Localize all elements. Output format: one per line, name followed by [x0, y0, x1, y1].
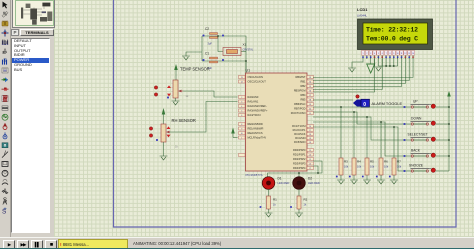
ground R4	[350, 180, 358, 184]
svg-text:10k: 10k	[357, 165, 362, 169]
svg-text:DOWN: DOWN	[411, 117, 422, 121]
ground R5	[363, 180, 371, 184]
svg-text:4: 4	[374, 53, 375, 55]
svg-text:23: 23	[309, 138, 311, 140]
junction LED D2	[298, 172, 300, 174]
svg-text:RD2/PSP2: RD2/PSP2	[293, 157, 306, 161]
junction rail UP	[448, 106, 450, 108]
svg-text:D2: D2	[308, 177, 312, 181]
svg-text:C2: C2	[205, 27, 209, 31]
wire LCD RS to MCU	[313, 67, 375, 92]
wire crystal right lead	[241, 51, 246, 53]
svg-text:1k: 1k	[273, 203, 276, 207]
svg-text:RC0/T1OSO: RC0/T1OSO	[291, 111, 306, 115]
svg-text:RE1/AN6/WR: RE1/AN6/WR	[248, 127, 264, 131]
logic toggle ALARM TOGGLE	[356, 95, 359, 98]
svg-text:X1: X1	[243, 43, 247, 47]
junction osc bottom	[245, 60, 247, 62]
U1 left pin number boxes	[239, 76, 246, 157]
svg-text:21: 21	[309, 159, 311, 161]
resistor R4	[349, 158, 362, 180]
power terminal TEMP sensor	[175, 70, 177, 80]
svg-text:OSC1/CLKIN: OSC1/CLKIN	[248, 75, 264, 79]
svg-text:6: 6	[241, 115, 242, 117]
button BACK	[403, 149, 449, 158]
wire MCU to SELECT button	[313, 117, 403, 140]
wire LCD D5 to MCU	[313, 59, 405, 84]
resistor R1	[260, 196, 278, 213]
svg-text:R7: R7	[397, 160, 401, 164]
capacitor C2	[210, 33, 218, 35]
svg-text:Time: 22:32:12: Time: 22:32:12	[366, 27, 418, 34]
svg-text:3: 3	[241, 102, 242, 104]
svg-text:RB2: RB2	[300, 84, 306, 88]
LCD LCD1 body	[358, 19, 433, 50]
svg-text:LM044L: LM044L	[357, 14, 368, 18]
svg-text:R1: R1	[273, 198, 277, 202]
resistor R3	[336, 158, 349, 180]
svg-text:RB5: RB5	[300, 98, 306, 102]
wire R4 to line	[353, 112, 355, 158]
pot TEMP wiper arrow	[178, 90, 182, 93]
svg-text:UP: UP	[413, 100, 418, 104]
junction rail DOWN	[448, 123, 450, 125]
wire RH pot bottom	[163, 142, 165, 156]
wire MCU to UP button	[313, 106, 403, 108]
svg-text:RA1/AN1: RA1/AN1	[248, 100, 259, 104]
power terminal button rail	[448, 97, 450, 100]
svg-text:RA2/AN2/VREF-: RA2/AN2/VREF-	[248, 104, 267, 108]
wire TEMP wiper to MCU RA0	[183, 91, 238, 97]
svg-text:R6: R6	[384, 160, 388, 164]
svg-text:RB1: RB1	[300, 80, 306, 84]
svg-text:RB7/PGD: RB7/PGD	[294, 107, 306, 111]
button SELECT/SET	[403, 133, 449, 142]
svg-text:10k: 10k	[397, 165, 402, 169]
wire MCU to SNOOZE button	[313, 127, 403, 171]
svg-text:10: 10	[241, 133, 243, 135]
junction R6	[380, 121, 382, 123]
svg-text:RH SENSOR: RH SENSOR	[172, 118, 196, 123]
ground RH sensor	[160, 156, 168, 160]
wire R5 to line	[366, 117, 368, 158]
svg-text:14: 14	[241, 82, 243, 84]
svg-text:10: 10	[397, 53, 399, 55]
wire LED D1 to R1	[268, 189, 270, 196]
svg-text:PIC16F877A: PIC16F877A	[246, 173, 263, 177]
svg-text:U1: U1	[246, 69, 251, 73]
ground R1	[265, 213, 273, 217]
svg-text:18: 18	[309, 134, 311, 136]
svg-text:7: 7	[386, 53, 387, 55]
crystal X1	[223, 48, 241, 56]
resistor R7	[389, 158, 402, 180]
wire VDD terminal to MCU	[233, 137, 238, 139]
svg-text:10k: 10k	[344, 165, 349, 169]
svg-text:4: 4	[241, 106, 242, 108]
potentiometer RV2 RH body	[161, 124, 166, 142]
svg-text:5: 5	[241, 111, 242, 113]
ground crystal	[182, 56, 190, 60]
wire RH wiper to MCU RA1	[170, 102, 238, 133]
svg-text:CRYSTAL: CRYSTAL	[243, 49, 254, 52]
svg-text:1k: 1k	[186, 94, 189, 98]
LCD screen	[363, 23, 428, 44]
svg-text:40: 40	[309, 109, 311, 111]
svg-text:RD3/PSP3: RD3/PSP3	[293, 162, 306, 166]
pot TEMP adjust buttons	[154, 86, 157, 89]
svg-text:RC3/SCK: RC3/SCK	[294, 132, 306, 136]
svg-text:RC1/T1OSI: RC1/T1OSI	[292, 124, 306, 128]
wire R7 to line	[393, 127, 395, 158]
svg-text:22: 22	[309, 164, 311, 166]
svg-text:1k: 1k	[304, 203, 307, 207]
LCD pin stubs	[363, 56, 413, 60]
svg-text:36: 36	[309, 91, 311, 93]
svg-text:3pF: 3pF	[208, 42, 213, 46]
LCD pin label boxes	[361, 51, 414, 56]
svg-text:9: 9	[241, 129, 242, 131]
ground terminal LCD VEE down arrow	[370, 59, 372, 64]
sheet border (schematic page outline)	[114, 0, 457, 227]
svg-text:13: 13	[408, 53, 410, 55]
svg-text:D1: D1	[278, 177, 282, 181]
svg-text:TEMP SENSOR: TEMP SENSOR	[180, 67, 210, 72]
U1 right pin number boxes	[307, 76, 314, 171]
svg-text:10k: 10k	[384, 165, 389, 169]
U1 pin name texts	[248, 75, 307, 170]
potentiometer RV1 TEMP body	[173, 80, 178, 98]
svg-text:RD1/PSP1: RD1/PSP1	[293, 153, 306, 157]
svg-text:2: 2	[241, 97, 242, 99]
svg-text:MCLR/Vpp/THV: MCLR/Vpp/THV	[248, 136, 267, 140]
wire R6 to line	[380, 122, 382, 158]
junction R3	[340, 106, 342, 108]
wire LED D2 to R2	[298, 189, 300, 196]
ground R7	[390, 180, 398, 184]
svg-text:R5: R5	[370, 160, 374, 164]
svg-text:1: 1	[241, 138, 242, 140]
svg-text:16: 16	[309, 126, 311, 128]
wire oscillator loop left vertical	[201, 36, 203, 61]
junction R5	[366, 116, 368, 118]
svg-text:RB0/INT: RB0/INT	[296, 75, 306, 79]
svg-text:LED-RED: LED-RED	[308, 181, 320, 185]
svg-text:RD4/PSP4: RD4/PSP4	[293, 166, 306, 170]
svg-text:27: 27	[309, 168, 311, 170]
svg-text:RA0/AN0: RA0/AN0	[248, 95, 259, 99]
svg-text:R2: R2	[304, 198, 308, 202]
svg-text:2: 2	[366, 53, 367, 55]
svg-text:37: 37	[309, 95, 311, 97]
svg-text:11: 11	[401, 53, 403, 55]
LCD pin state squares	[362, 56, 414, 58]
wire LCD D4 to MCU	[313, 59, 402, 87]
svg-text:1k: 1k	[175, 145, 178, 149]
svg-text:33: 33	[309, 77, 311, 79]
svg-text:RA3/AN3/VREF+: RA3/AN3/VREF+	[248, 109, 268, 113]
ground LCD RW	[374, 67, 382, 71]
wire LCD VSS to ground	[352, 59, 363, 68]
junction R4	[353, 111, 355, 113]
wire oscillator top rail to OSC1	[202, 36, 246, 77]
pot RH adjust buttons	[149, 127, 152, 130]
svg-text:39: 39	[309, 104, 311, 106]
LED D2 (off)	[293, 177, 320, 190]
resistor R6	[376, 158, 389, 180]
junction LED feed	[317, 172, 319, 174]
button UP	[403, 100, 449, 109]
svg-text:9: 9	[393, 53, 394, 55]
svg-text:RC4/SDI: RC4/SDI	[295, 136, 306, 140]
wire MCU to alarm toggle	[313, 99, 353, 101]
svg-text:1: 1	[363, 53, 364, 55]
wire R3 to line	[340, 107, 342, 158]
svg-text:RB6/PGC: RB6/PGC	[294, 102, 306, 106]
wire MCU to LED D1	[268, 161, 323, 177]
wire button power rail	[448, 99, 450, 171]
wire TEMP pot bottom	[175, 98, 177, 101]
svg-text:SNOOZE: SNOOZE	[409, 164, 424, 168]
svg-text:LED-RED: LED-RED	[278, 181, 290, 185]
svg-text:OSC2/CLKOUT: OSC2/CLKOUT	[248, 80, 267, 84]
svg-text:13: 13	[241, 77, 243, 79]
svg-text:8: 8	[241, 124, 242, 126]
svg-text:5: 5	[378, 53, 379, 55]
svg-text:3: 3	[370, 53, 371, 55]
svg-text:RC2/CCP1: RC2/CCP1	[293, 128, 306, 132]
junction dots LCD data tie	[385, 65, 387, 67]
capacitor C1	[210, 57, 218, 59]
wire crystal ground branch	[186, 52, 202, 56]
svg-text:Tem:00.0 deg C: Tem:00.0 deg C	[366, 36, 418, 43]
wire MCU to DOWN button	[313, 112, 403, 124]
junction rail SELECT/SET	[448, 139, 450, 141]
svg-text:15: 15	[309, 113, 311, 115]
svg-text:RB3/PGM: RB3/PGM	[294, 89, 306, 93]
power terminal RH sensor	[163, 115, 165, 125]
svg-text:35: 35	[309, 86, 311, 88]
wire crystal left lead	[218, 36, 223, 52]
wire MCU to BACK button	[313, 122, 403, 156]
ground LCD VSS	[348, 68, 356, 72]
svg-text:RC5/SDO: RC5/SDO	[294, 140, 306, 144]
junction rail BACK	[448, 155, 450, 157]
svg-text:14: 14	[412, 53, 414, 55]
svg-text:24: 24	[309, 142, 311, 144]
resistor R2	[290, 196, 308, 213]
wire branch to LED D2	[298, 173, 300, 177]
svg-text:BACK: BACK	[411, 149, 421, 153]
button SNOOZE	[403, 164, 449, 173]
svg-text:ALARM TOGGLE: ALARM TOGGLE	[372, 101, 403, 106]
svg-text:RE2/AN7/CS: RE2/AN7/CS	[248, 131, 263, 135]
svg-text:SELECT/SET: SELECT/SET	[408, 133, 428, 137]
svg-text:C1: C1	[205, 52, 209, 56]
junction crystal-top	[217, 35, 219, 37]
svg-text:34: 34	[309, 82, 311, 84]
svg-text:10k: 10k	[370, 165, 375, 169]
svg-text:RA4/T0CKI: RA4/T0CKI	[248, 113, 261, 117]
junction R7	[393, 126, 395, 128]
wire LCD RW D0-D3 tie	[378, 59, 397, 66]
button DOWN	[403, 117, 449, 126]
pot RH wiper arrow	[166, 131, 170, 134]
svg-text:19: 19	[309, 150, 311, 152]
ground R2	[295, 213, 303, 217]
svg-text:8: 8	[389, 53, 390, 55]
ground TEMP sensor	[172, 101, 180, 105]
wire LCD E to MCU	[313, 67, 382, 90]
ground R6	[377, 180, 385, 184]
svg-text:LCD1: LCD1	[357, 7, 368, 12]
svg-text:17: 17	[309, 130, 311, 132]
resistor R5	[362, 158, 375, 180]
wire LCD D7 to MCU	[313, 59, 413, 78]
wire LCD D6 to MCU	[313, 59, 409, 81]
svg-text:RD0/PSP0: RD0/PSP0	[293, 148, 306, 152]
LED D1 (on)	[262, 177, 289, 190]
power terminal VDD near MCU	[232, 134, 234, 138]
svg-text:R4: R4	[357, 160, 361, 164]
svg-text:RE0/AN5/RD: RE0/AN5/RD	[248, 122, 263, 126]
svg-text:6: 6	[382, 53, 383, 55]
svg-text:20: 20	[309, 155, 311, 157]
svg-text:38: 38	[309, 100, 311, 102]
svg-text:12: 12	[404, 53, 406, 55]
svg-text:R3: R3	[344, 160, 348, 164]
ground R3	[337, 180, 345, 184]
wire oscillator bottom rail to OSC2	[202, 61, 246, 82]
svg-text:RB4: RB4	[300, 93, 306, 97]
wire MCU to LED branch	[313, 166, 318, 173]
